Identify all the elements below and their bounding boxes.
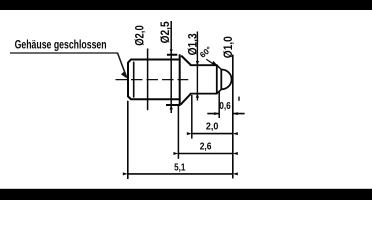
svg-text:2,6: 2,6 (200, 141, 212, 153)
svg-text:2,0: 2,0 (206, 120, 219, 132)
tip dome (221, 70, 231, 90)
plunger shaft (190, 65, 217, 93)
flange (166, 54, 180, 106)
bottom letterbox bar (0, 189, 372, 200)
arrow Ø1,3 bottom (196, 94, 199, 98)
barrel inner crimp line (133, 62, 135, 98)
extension line 0,6 left (218, 91, 220, 118)
tip chamfer bottom (217, 89, 222, 93)
svg-text:5,1: 5,1 (174, 162, 185, 174)
cone top (181, 56, 191, 65)
leader Ø2,5 (170, 21, 172, 113)
svg-text:0,6: 0,6 (219, 100, 231, 112)
barrel outline (128, 60, 180, 100)
extension line left (5,1) (127, 101, 129, 179)
arrow Ø2,5 bottom (170, 105, 173, 109)
leader arrowhead (121, 72, 127, 79)
leader underline (10, 52, 118, 54)
top letterbox bar (0, 0, 372, 10)
leader 60° (206, 59, 214, 64)
arrow Ø1,3 top (196, 61, 199, 65)
arrow 60° (212, 61, 217, 65)
centerline (116, 79, 189, 81)
leader Ø1,3 (196, 32, 198, 101)
leader diagonal (117, 53, 126, 78)
leader Ø1,0 / right extension line (232, 55, 234, 179)
arrow Ø2,5 top (170, 49, 173, 53)
leader Ø2,0 (147, 49, 149, 111)
svg-text:Ø2,0: Ø2,0 (134, 25, 146, 46)
small tick right of tip (238, 97, 240, 101)
svg-text:Ø2,5: Ø2,5 (160, 21, 172, 44)
svg-text:Gehäuse geschlossen: Gehäuse geschlossen (15, 37, 107, 51)
tip chamfer top (217, 65, 222, 69)
shaft end step (216, 64, 218, 94)
cone bottom (181, 94, 191, 105)
extension line 2,0 (191, 95, 193, 139)
extension line 2,6 (177, 106, 179, 159)
svg-text:60°: 60° (198, 45, 213, 60)
